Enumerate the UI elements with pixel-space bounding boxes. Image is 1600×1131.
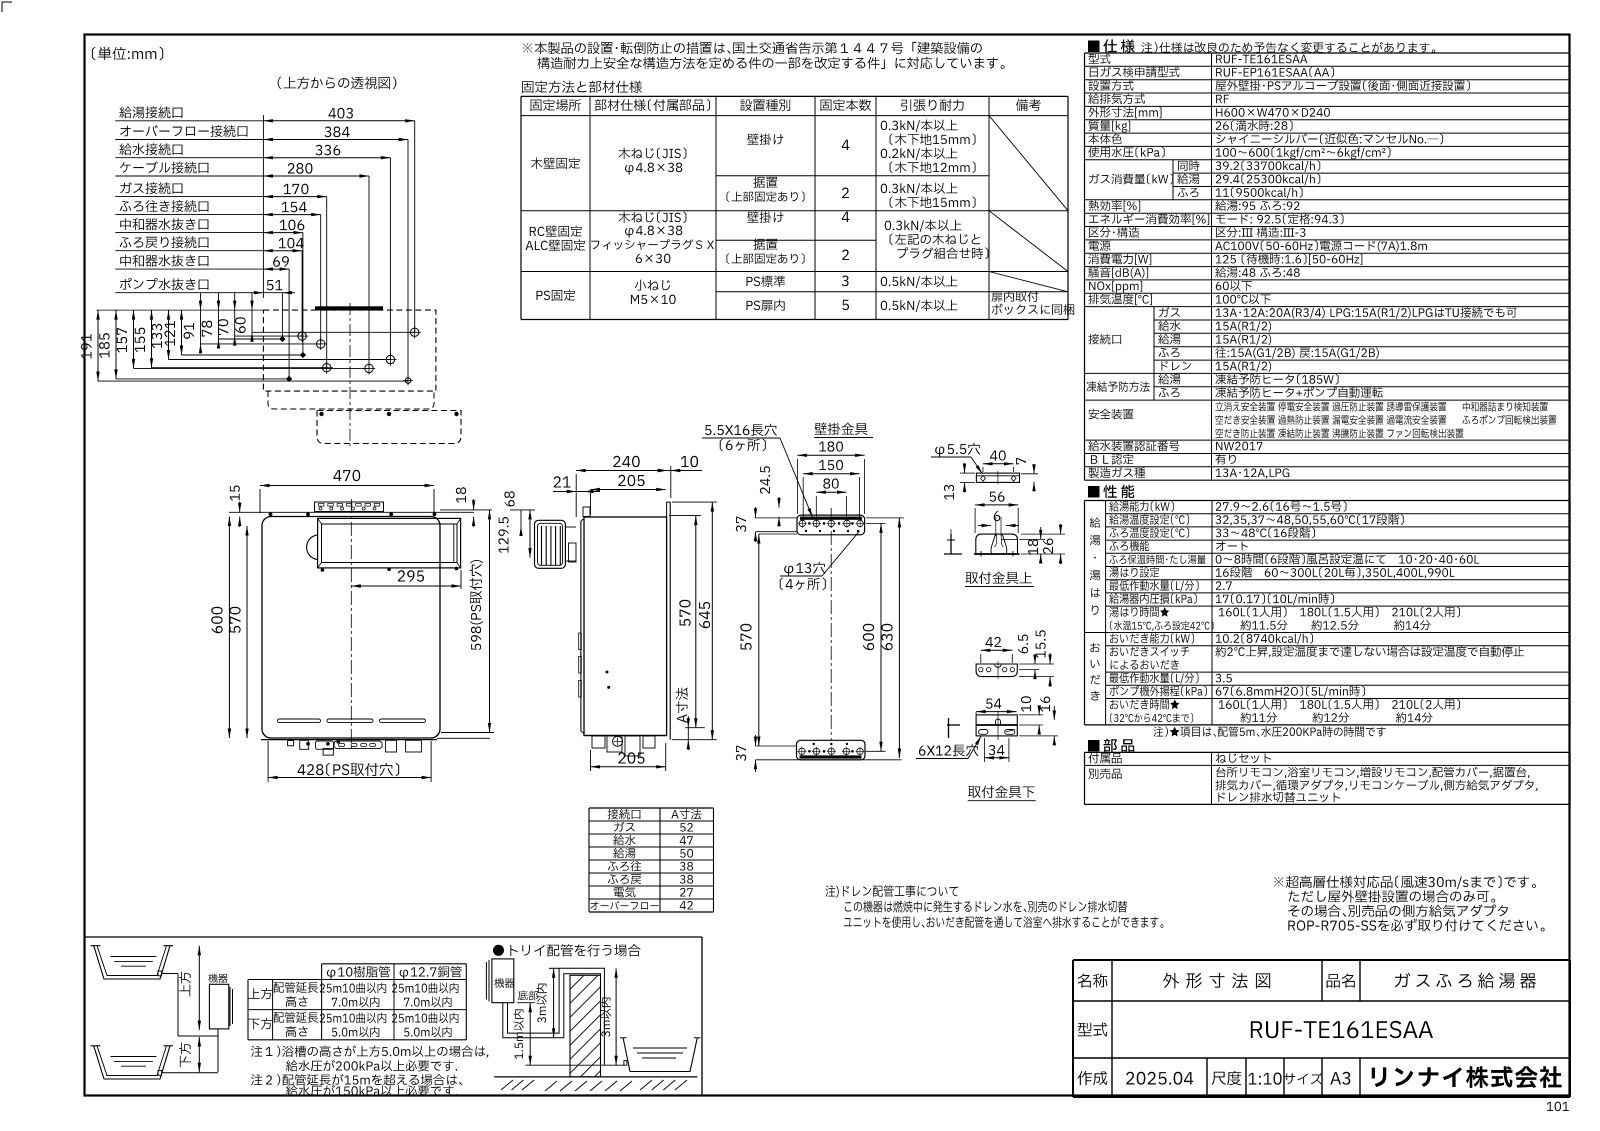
front view body [262,517,440,739]
title block row1 [1078,973,1108,987]
dim 16 fitting [1053,706,1055,720]
device piping [162,973,178,975]
plan pipe cover box [317,411,461,444]
top fitting bar [976,473,1019,482]
bracket title [815,423,868,435]
bracket top label [966,572,1032,584]
performance header [1088,486,1100,498]
phi5.5 label [935,443,980,457]
dim 18 [473,499,475,510]
dim 570 side [695,516,697,728]
fixing table title [522,81,642,93]
dim 205 bottom [591,766,666,768]
lower fitting plate2 [976,715,1017,736]
dim 129.5 [529,510,531,558]
torii device [492,959,514,1003]
torii dims [529,1003,531,1065]
spec rows text [1089,54,1111,64]
dim 240 [576,470,667,472]
hook bracket [976,534,1018,554]
label ガス接続口 170 [120,182,182,194]
dim 37 bottom [755,735,757,746]
fixing table col2 [619,148,687,160]
dim 205 top [591,489,666,491]
top reference line [97,309,264,311]
dim 6 [978,525,991,527]
common extension line [262,115,264,298]
side view body [584,517,667,736]
dim 630 bracket [898,518,900,758]
depth dims [97,310,99,381]
front centerline [350,499,352,751]
plan lower flange [268,391,434,409]
label 中和器水抜き口 69 [120,255,208,267]
dim 13 [964,463,966,473]
lower fitting plate1 [976,664,1017,677]
connection points [411,328,419,336]
dim 15 [239,502,241,513]
top bracket [797,515,865,535]
label 中和器水抜き口 106 [120,218,208,230]
dim A side [687,716,689,728]
side wall line [669,502,671,740]
bottom bracket [797,740,866,760]
dim 21 [553,491,600,493]
unit note [92,47,163,60]
perspective view title [278,77,397,89]
dim 80 [816,491,846,493]
dim 10 [667,470,702,472]
parts header [1088,740,1100,752]
performance group labels [1089,517,1100,528]
torii title [493,945,504,956]
corner mark [2,1,12,3]
side view grille [535,520,566,568]
upper bathtub [94,946,170,979]
torii tub [623,1038,697,1072]
label ケーブル接続口 280 [120,161,208,173]
side bottom pipes [584,735,667,737]
drain note [825,885,958,898]
dim 598 [489,510,491,733]
page number [1547,1102,1569,1112]
title block [1073,959,1570,961]
dim 6.5 [1034,655,1036,664]
label 給湯接続口 403 [119,106,182,118]
dim 150 [803,473,859,475]
dim 42 [981,649,1013,651]
dim 600 [228,517,230,739]
flue bump [307,535,318,560]
label ふろ往き接続口 154 [120,200,209,212]
teibu label [518,991,538,1001]
fixing table header [531,99,581,111]
dim 470 [260,485,434,487]
spec table grid [1085,52,1571,54]
dim 34 [985,757,1009,759]
dim 570 front [246,526,248,738]
front view top extension line [229,511,474,513]
performance grid [1085,500,1571,502]
piping table [322,963,467,965]
parts rows [1088,753,1121,764]
side view top tab [583,507,590,517]
dim 54 [976,711,1016,713]
fixing table col5 [881,120,958,133]
front view top screws [269,512,273,516]
plan outline dashed [263,310,436,391]
plan centerline [349,303,351,446]
installation note [523,42,982,54]
device box left diagram [208,974,227,983]
label 給水接続口 336 [119,143,182,155]
front bottom flange [261,739,437,741]
dim 645 [711,502,713,740]
lower bathtub [94,1046,170,1079]
side view slots and dots [579,633,582,650]
performance note [1153,726,1385,737]
parts grid [1085,751,1571,753]
front bottom pipes [288,741,294,746]
bracket bottom label [968,786,1034,798]
fixing table col1 [531,158,580,170]
dim 15.5 [1049,653,1051,664]
duct screws [321,568,325,572]
fixing table grid [521,95,1068,97]
fixing table col3 [747,134,783,146]
dim 18 fitting [1040,527,1042,539]
ground line [494,1076,697,1078]
A-dim table [589,807,714,809]
dim 26 fitting [1060,524,1062,534]
piping notes [251,1045,488,1057]
dim 40 [983,463,1014,465]
dim 428 [268,777,431,779]
front bottom louvers [278,719,321,722]
plan vent bar [315,306,383,310]
spec header [1088,41,1100,53]
side view front panel [580,521,582,731]
ground hatch [501,1080,513,1090]
datum mark top fitting [950,534,952,554]
6x12 label [919,744,979,756]
dim 600 bracket [880,523,882,751]
title block row3 [1077,1071,1107,1085]
dim 570 bracket [758,534,760,746]
label ポンプ水抜き口 51 [120,278,209,290]
dim 56 [975,504,1018,506]
grille mount [565,526,576,528]
dim 7 [1033,465,1035,474]
high-rise note [1274,876,1536,890]
front view top vent plate [315,502,384,512]
fixing table col4 [842,140,850,150]
phi13 label [784,562,825,576]
bracket centerline [830,508,832,740]
slot label [705,424,777,436]
exhaust duct box [318,518,461,568]
datum mark bottom fitting [947,724,960,726]
dim 24.5 [778,497,780,508]
fixing table remark diagonals [989,116,1068,211]
label オーバーフロー接続口 384 [120,125,247,137]
dim 37 top [755,507,757,518]
torii pipe [503,974,601,1065]
dim 10 fitting [1038,706,1040,715]
updown dims [198,946,200,1030]
performance rows [1109,501,1174,512]
dim 68 [520,510,522,527]
title block row2 [1078,1022,1107,1036]
torii wall hatch [570,975,601,1077]
bottom box frame [85,936,703,938]
risers [414,121,416,332]
fixing table remark text [991,291,1038,302]
dim 295 [351,585,461,587]
label ふろ戻り接続口 104 [120,236,209,248]
dim 180 [797,454,864,456]
